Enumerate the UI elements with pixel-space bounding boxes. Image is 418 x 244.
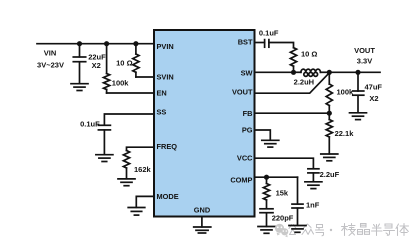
resistor R5 100k (FB top)	[328, 72, 330, 84]
svg-text:VIN: VIN	[44, 49, 57, 58]
svg-text:2.2uH: 2.2uH	[294, 78, 314, 87]
resistor R7 15k (COMP)	[266, 177, 268, 183]
capacitor C5 2.2uF (VCC)	[308, 168, 319, 170]
ground	[321, 154, 338, 161]
svg-text:162k: 162k	[134, 165, 152, 174]
resistor R4 10 ohm (BST)	[290, 48, 296, 66]
ground	[118, 179, 135, 186]
ground (PG)	[262, 140, 279, 147]
ground (MODE)	[128, 208, 145, 216]
resistor R3 162k (FREQ)	[123, 151, 129, 169]
ground	[71, 84, 88, 91]
svg-text:100k: 100k	[337, 88, 355, 97]
svg-text:22.1k: 22.1k	[335, 129, 355, 138]
wire VOUT pin + diagonal	[255, 73, 329, 93]
ground	[289, 226, 306, 233]
wire MODE	[136, 196, 154, 207]
svg-text:VCC: VCC	[237, 154, 253, 163]
capacitor C7 1nF	[297, 177, 299, 204]
wire FB	[255, 112, 329, 114]
svg-text:10 Ω: 10 Ω	[301, 50, 317, 59]
ground	[96, 155, 113, 162]
wire GND stub	[201, 218, 203, 227]
glyph 号	[316, 225, 324, 236]
wire SVIN	[136, 76, 154, 78]
svg-text:VOUT: VOUT	[354, 46, 375, 55]
svg-text:MODE: MODE	[157, 192, 179, 201]
svg-text:2.2uF: 2.2uF	[320, 170, 340, 179]
glyph 导	[384, 224, 395, 235]
resistor R2 10 ohm (SVIN filter)	[135, 44, 137, 54]
node VIN-R2	[133, 41, 138, 46]
capacitor C2 0.1uF (SS)	[98, 124, 110, 126]
wire COMP	[255, 176, 298, 178]
glyph 众	[302, 224, 314, 235]
IC U1 regulator body	[154, 30, 255, 217]
svg-text:VOUT: VOUT	[232, 88, 253, 97]
svg-text:47uF: 47uF	[365, 83, 383, 92]
glyph 公	[289, 225, 296, 235]
svg-text:220pF: 220pF	[272, 213, 294, 222]
node VIN-C1	[77, 41, 82, 46]
svg-text:PVIN: PVIN	[157, 42, 174, 51]
svg-text:3V~23V: 3V~23V	[37, 60, 64, 69]
node VIN-R1	[104, 41, 109, 46]
wire VCC	[255, 158, 313, 168]
svg-text:BST: BST	[238, 38, 253, 47]
svg-text:EN: EN	[157, 89, 167, 98]
svg-text:3.3V: 3.3V	[357, 56, 372, 65]
middot	[330, 229, 332, 231]
wire PG	[255, 130, 270, 140]
svg-text:SVIN: SVIN	[157, 73, 174, 82]
capacitor C1 22uF X2	[79, 44, 81, 57]
svg-text:100k: 100k	[112, 79, 130, 88]
wire SW	[255, 71, 294, 73]
svg-text:COMP: COMP	[230, 175, 252, 184]
node COMP	[264, 175, 269, 180]
wire SS	[104, 114, 154, 125]
ground (IC GND)	[194, 227, 211, 233]
watermark text 公众号 · 棱晶半导体	[289, 224, 409, 236]
resistor R6 22.1k (FB bottom)	[328, 113, 330, 119]
svg-text:10 Ω: 10 Ω	[116, 59, 132, 68]
svg-text:15k: 15k	[276, 188, 289, 197]
ground	[305, 182, 322, 189]
svg-text:SS: SS	[157, 107, 167, 116]
glyph 棱	[342, 224, 356, 236]
svg-text:0.1uF: 0.1uF	[80, 119, 100, 128]
wire BST	[255, 42, 265, 44]
svg-text:0.1uF: 0.1uF	[259, 29, 279, 38]
glyph 体	[396, 224, 409, 236]
node junction dots	[77, 41, 361, 180]
node FB	[327, 111, 332, 116]
wire FREQ	[127, 147, 155, 150]
node SW	[291, 70, 296, 75]
svg-text:FREQ: FREQ	[157, 142, 178, 151]
capacitor C6 220pF	[260, 208, 273, 210]
svg-text:GND: GND	[194, 205, 211, 214]
svg-text:X2: X2	[92, 61, 101, 70]
node VOUT-C4	[355, 70, 360, 75]
node VOUT-L1	[327, 70, 332, 75]
svg-text:1nF: 1nF	[306, 201, 320, 210]
svg-text:PG: PG	[242, 125, 253, 134]
inductor L1 2.2uH	[294, 71, 301, 73]
glyph 半	[372, 224, 383, 236]
glyph 晶	[358, 224, 370, 235]
svg-text:SW: SW	[241, 69, 253, 78]
svg-text:FB: FB	[243, 109, 253, 118]
wire EN	[107, 92, 154, 94]
wire VOUT rail	[329, 71, 380, 73]
wire VIN rail	[37, 43, 154, 45]
watermark logo (wechat bubbles)	[275, 224, 288, 238]
ground	[258, 227, 275, 234]
capacitor C4 47uF X2	[357, 72, 359, 91]
svg-text:X2: X2	[369, 94, 378, 103]
resistor R1 100k (EN pull-up)	[106, 44, 108, 74]
ground	[350, 113, 367, 120]
capacitor C3 0.1uF (BST)	[264, 40, 266, 48]
